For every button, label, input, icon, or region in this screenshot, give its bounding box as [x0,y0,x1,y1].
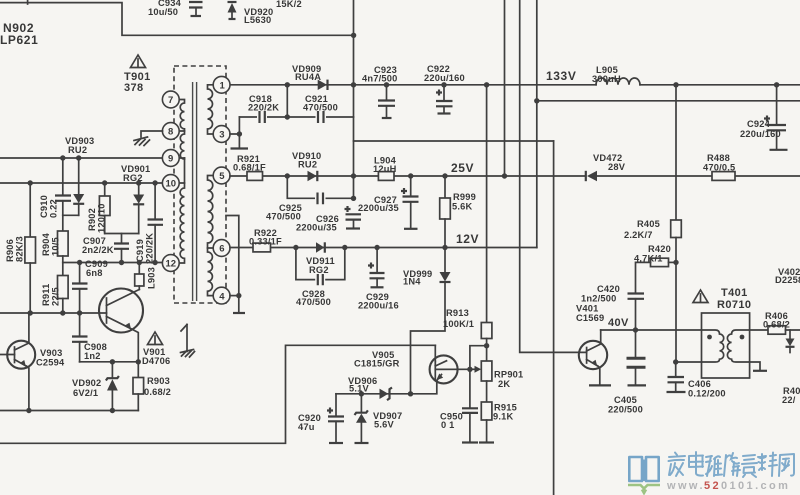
label R407 [782,386,800,405]
wire C918 line [239,116,353,118]
transformer core [193,82,197,301]
svg-text:T401: T401 [721,287,748,299]
T401 primary winding [702,330,724,362]
svg-text:12uH: 12uH [373,164,397,174]
svg-text:C1815/GR: C1815/GR [354,359,400,369]
wire emitter net [80,361,139,363]
svg-text:0.68/2: 0.68/2 [763,320,790,330]
capacitor C927 [358,176,419,229]
capacitor C920 [298,394,344,443]
primary winding 10-12 [179,183,184,263]
primary winding 7-8 [179,100,184,132]
svg-text:R904: R904 [41,232,51,256]
wire C910/VD903 join [63,214,79,216]
resistor R999 [440,176,476,248]
svg-text:4: 4 [219,291,225,302]
svg-text:82K/3: 82K/3 [15,236,25,262]
wire 40V rail [601,329,702,331]
svg-text:RU4A: RU4A [295,72,321,82]
wire vertical 553 [553,141,555,495]
wire T401 top right out [750,329,768,331]
wire tap branch [226,216,239,313]
wire R902/VD901 join [105,233,139,235]
svg-text:6: 6 [219,244,224,255]
wire R405 lower vertical [675,262,677,362]
svg-text:V903: V903 [40,348,63,358]
watermark logo book icon [629,457,658,481]
wire T401 bottom left [676,361,702,363]
capacitor C921 [303,94,338,123]
wire 133V rail [230,84,800,86]
ground stub tap [233,312,245,314]
label N902 LP621 [0,21,38,47]
svg-text:R903: R903 [147,376,170,386]
svg-text:12: 12 [166,259,177,270]
svg-text:1n2/500: 1n2/500 [581,294,617,304]
resistor R902 [87,183,110,234]
svg-text:52: 52 [704,480,721,492]
resistor R488 [703,153,735,180]
svg-text:2200u/35: 2200u/35 [296,223,337,233]
capacitor C923 [362,65,398,118]
IC box N902 outline [0,3,354,36]
capacitor C928 bypass [296,248,345,308]
svg-text:R405: R405 [637,219,660,229]
transistor V905 [354,345,470,394]
svg-text:220/2K: 220/2K [248,103,279,113]
pin 6 [213,240,230,257]
svg-text:10/5: 10/5 [51,237,61,256]
wire 25V rail [230,175,800,177]
wire feedback line 141 [354,140,554,142]
inductor L903 [135,263,157,290]
capacitor C405 [608,330,646,415]
svg-text:28V: 28V [608,162,626,172]
svg-text:220u/160: 220u/160 [424,73,465,83]
capacitor C919 [135,183,163,264]
svg-text:40V: 40V [608,317,629,329]
wire vertical 536 12V riser [536,0,538,248]
svg-text:0.12/200: 0.12/200 [688,389,726,399]
svg-text:8: 8 [168,127,173,138]
diode VD999 [403,248,451,394]
svg-text:0 1: 0 1 [441,420,455,430]
transformer T901 dashed box [174,66,226,303]
svg-text:2200u/35: 2200u/35 [358,203,399,213]
svg-text:6V2/1: 6V2/1 [73,388,98,398]
resistor R420 [634,244,679,293]
svg-text:C924: C924 [747,119,771,129]
capacitor C908 [72,313,107,362]
diode VD910 [292,151,321,181]
svg-text:220u/160: 220u/160 [740,129,781,139]
svg-text:V401: V401 [576,304,599,314]
junction dots on 133V rail [285,82,290,87]
label T401 R0710 [717,287,751,311]
resistor R915 [479,402,517,443]
capacitor C907 [82,234,129,263]
svg-text:C405: C405 [614,395,637,405]
wire pin9 rail [0,157,163,159]
svg-text:1n2: 1n2 [84,351,101,361]
capacitor C909 [72,259,108,313]
diode VD901 [133,183,144,234]
resistor R911 [41,263,68,314]
transistor V901 [99,289,170,367]
svg-text:47u: 47u [298,422,315,432]
svg-text:RG2: RG2 [123,173,143,183]
svg-text:470/500: 470/500 [266,212,301,222]
svg-text:133V: 133V [546,69,576,83]
svg-text:5.6V: 5.6V [374,420,395,430]
resistor R922 [249,228,282,252]
capacitor C924 [740,85,788,150]
capacitor C925 [266,193,326,222]
resistor R405 [624,85,681,263]
ground stub pin3 [231,147,249,149]
pin 5 [213,167,230,184]
capacitor C406 [667,362,726,399]
watermark chinese text [669,452,795,477]
diode VD920 [228,2,274,25]
svg-text:470/0.5: 470/0.5 [703,163,735,173]
diode VD472 [586,153,626,181]
resistor R904 [41,215,68,262]
pin 1 [213,76,230,93]
svg-text:2n2/2K: 2n2/2K [82,245,114,255]
svg-text:4n7/500: 4n7/500 [362,74,398,84]
capacitor C922 [424,64,465,114]
resistor R913 [443,85,492,346]
svg-text:2200u/16: 2200u/16 [358,301,399,311]
transformer T401 box [702,313,750,378]
primary winding 8-9 [179,131,184,159]
svg-text:1: 1 [220,81,226,92]
svg-text:L5630: L5630 [244,15,271,25]
warning triangle T401 [693,290,708,303]
warning triangle V901 [148,332,163,345]
zener VD906 [348,376,392,400]
svg-text:10: 10 [166,179,177,190]
svg-text:L903: L903 [147,267,157,289]
pin 9 [162,150,179,167]
wire vertical 519 to V401 base [520,0,587,352]
svg-text:R999: R999 [453,192,476,202]
svg-text:RP901: RP901 [494,370,523,380]
svg-text:220/500: 220/500 [608,405,643,415]
resistor R903 [133,362,171,411]
watermark logo base [628,485,660,493]
wire vertical feed from top to VD909 node [353,0,355,198]
junction dot box output [351,33,356,38]
stub at top left [27,0,29,4]
diode VD911 [306,242,335,275]
pin 12 [162,255,179,272]
svg-text:www.: www. [666,480,705,492]
wire pin3 branch [230,117,239,148]
pin 10 [162,175,179,192]
svg-text:120/10: 120/10 [97,203,107,233]
secondary winding 6-4 [208,248,214,296]
svg-text:D4706: D4706 [142,356,170,366]
capacitor C420 [581,284,644,330]
capacitor C926 [296,206,361,233]
diode V402 [775,267,800,353]
svg-text:2K: 2K [498,379,510,389]
wire pin10 rail [0,182,163,184]
wire rail2 101 [537,100,800,102]
pin 7 [162,91,179,108]
svg-text:R913: R913 [446,308,469,318]
ground at pin 8 [134,131,163,146]
potentiometer RP901 [470,346,524,402]
svg-text:470/500: 470/500 [303,103,338,113]
label VD903 RU2 [65,136,94,155]
svg-text:C1569: C1569 [576,313,604,323]
wire C925 bypass [287,176,353,198]
wire bottom left line [0,410,138,412]
capacitor C910 [39,158,71,218]
transistor V903 [0,313,65,411]
svg-text:22/5: 22/5 [51,287,61,306]
svg-text:C420: C420 [597,284,620,294]
svg-text:378: 378 [124,82,144,94]
svg-text:R911: R911 [41,283,51,306]
wire pin4 line [230,295,240,297]
svg-text:LP621: LP621 [0,33,38,47]
pin 4 [213,287,230,304]
svg-text:RU2: RU2 [298,160,317,170]
wire R913 to collector node [470,346,487,370]
svg-text:1N4: 1N4 [403,277,421,287]
svg-text:0.33/1F: 0.33/1F [249,237,282,247]
svg-text:4.7K/1: 4.7K/1 [634,254,663,264]
svg-text:6n8: 6n8 [86,268,103,278]
T401 secondary winding [727,330,749,362]
resistor R406 [763,311,800,334]
secondary winding 1-3 [208,85,214,134]
svg-text:0.68/1F: 0.68/1F [233,163,266,173]
svg-text:C2594: C2594 [36,358,65,368]
svg-text:220/2K: 220/2K [145,233,155,264]
svg-text:7: 7 [168,95,173,106]
diode VD909 [292,64,328,90]
svg-text:R420: R420 [648,244,671,254]
svg-text:15K/2: 15K/2 [276,0,302,9]
svg-text:0.22: 0.22 [49,199,59,218]
inductor L905 [592,65,640,85]
label VD901 RG2 [121,164,150,183]
capacitor C929 [358,248,399,311]
svg-text:R0710: R0710 [717,299,751,311]
wire pin12 collector line [63,262,164,264]
svg-text:0101.com: 0101.com [721,480,790,492]
svg-text:470/500: 470/500 [296,297,331,307]
svg-text:R902: R902 [87,208,97,231]
ground symbol near V901 [181,325,195,358]
svg-text:VD902: VD902 [72,378,101,388]
wire vertical 504 [504,0,506,176]
svg-text:5.1V: 5.1V [349,384,370,394]
transistor V401 [576,304,611,386]
svg-text:300uH: 300uH [592,74,621,84]
svg-text:9.1K: 9.1K [493,412,514,422]
zener VD902 [72,362,119,411]
svg-text:3: 3 [219,130,224,141]
svg-text:D2258: D2258 [775,275,800,285]
diode VD903 [73,158,84,215]
capacitor C934 [148,0,203,17]
wire T401 bottom right out [750,362,760,370]
wire 12V rail [230,247,537,249]
resistor R906 [5,183,36,313]
watermark url [666,480,790,492]
svg-text:10u/50: 10u/50 [148,7,178,17]
svg-text:5.6K: 5.6K [452,202,473,212]
secondary winding 5-6 [208,176,214,249]
svg-text:C406: C406 [688,379,711,389]
svg-text:25V: 25V [451,161,474,175]
svg-text:0.68/2: 0.68/2 [144,387,171,397]
svg-text:2.2K/7: 2.2K/7 [624,230,653,240]
wire pin1 branch vertical [286,85,288,117]
wire 9-10 link [179,158,184,183]
svg-text:9: 9 [168,154,173,165]
svg-text:R906: R906 [5,239,15,262]
capacitor C918 [248,94,279,123]
zener VD907 [355,394,403,443]
pin 3 [213,126,230,143]
ground stub T401 [753,370,767,372]
inductor L904 [373,156,397,181]
wire zener line [336,393,411,395]
wire bottom return line [0,345,435,443]
capacitor C950 [440,369,478,442]
svg-text:22/: 22/ [782,395,796,405]
label T901 378 [124,71,151,94]
svg-text:5: 5 [219,171,225,182]
svg-text:12V: 12V [456,232,479,246]
warning triangle T901 [131,55,146,68]
pin 8 [162,123,179,140]
svg-text:C910: C910 [39,195,49,218]
svg-text:100K/1: 100K/1 [443,319,474,329]
resistor R921 [233,154,266,180]
svg-text:R488: R488 [707,153,730,163]
junction collector node [467,367,472,372]
svg-text:RU2: RU2 [68,145,87,155]
svg-text:C919: C919 [135,239,145,262]
wire V901 base rail [0,312,107,314]
